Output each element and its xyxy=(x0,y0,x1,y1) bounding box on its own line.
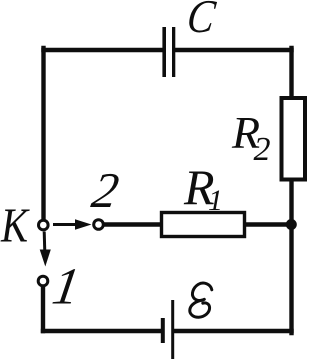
svg-text:2: 2 xyxy=(88,162,123,218)
svg-text:K: K xyxy=(0,198,30,253)
svg-text:C: C xyxy=(184,0,219,43)
svg-text:1: 1 xyxy=(49,258,84,316)
svg-text:2: 2 xyxy=(254,131,271,168)
svg-text:1: 1 xyxy=(208,184,223,217)
